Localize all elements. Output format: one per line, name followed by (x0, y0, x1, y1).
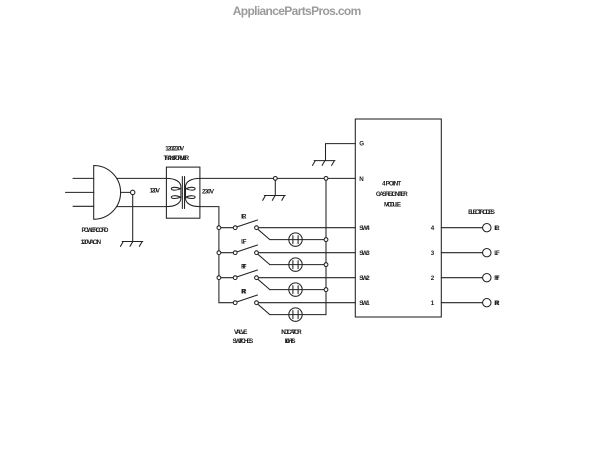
svg-text:GAS RE-IGNITER: GAS RE-IGNITER (376, 191, 408, 198)
ground symbol at N rail (263, 196, 286, 201)
svg-text:1: 1 (431, 300, 435, 307)
svg-text:INDICATOR: INDICATOR (281, 329, 302, 336)
wire lamp tap row 4 diagonal (258, 304, 270, 314)
junction ring bus row 2 (217, 251, 221, 255)
wire electrode lead 2 (441, 277, 482, 279)
svg-text:MODULE: MODULE (384, 201, 401, 208)
svg-text:RR: RR (494, 300, 500, 307)
svg-text:AppliancePartsPros.com: AppliancePartsPros.com (233, 4, 362, 18)
svg-text:2: 2 (431, 275, 435, 282)
plug ground terminal ring (131, 190, 135, 194)
transformer core lines (182, 177, 184, 209)
valve switch RR right terminal (255, 301, 259, 305)
svg-text:VALVE: VALVE (234, 329, 248, 336)
wire N ground drop (274, 180, 276, 195)
svg-text:LIGHTS: LIGHTS (285, 338, 296, 345)
svg-text:LR: LR (494, 225, 500, 232)
wire switch bus stub row 2 (219, 252, 233, 254)
wire lamp row 2 to neutral bus (270, 264, 326, 266)
valve switch LR left terminal (233, 226, 237, 230)
svg-text:SW1: SW1 (359, 300, 370, 307)
wire SW4 row to module (258, 227, 355, 229)
junction ring node N-bus top (324, 177, 328, 181)
valve switch RR arm (237, 295, 257, 302)
valve switch LF right terminal (255, 251, 259, 255)
svg-text:120/230V: 120/230V (165, 145, 185, 152)
wire plug ground stub (121, 191, 131, 193)
indicator light RF (289, 283, 302, 296)
indicator light RR (289, 308, 302, 321)
electrode terminal LR (483, 224, 491, 232)
wire lamp tap row 3 diagonal (258, 279, 270, 289)
svg-text:SW3: SW3 (359, 250, 370, 257)
valve switch LR arm (237, 220, 257, 227)
svg-text:LF: LF (494, 250, 500, 257)
electrode terminal LF (483, 249, 491, 257)
electrode terminal RR (483, 299, 491, 307)
junction ring node N-ground tap (273, 177, 277, 181)
transformer secondary loop 2 (186, 196, 195, 199)
indicator light LF (289, 258, 302, 271)
svg-text:SWITCHES: SWITCHES (233, 338, 254, 345)
transformer primary loop 1 (171, 187, 180, 190)
wire lamp tap row 1 diagonal (258, 229, 270, 239)
svg-text:RF: RF (241, 263, 247, 270)
wire switch bus stub row 1 (219, 227, 233, 229)
svg-text:N: N (359, 176, 364, 183)
svg-text:POWER CORD: POWER CORD (82, 227, 110, 234)
indicator light LR (289, 233, 302, 246)
svg-text:4: 4 (431, 225, 435, 232)
wire module G lead (326, 144, 356, 161)
valve switch RF arm (237, 270, 257, 277)
wire electrode lead 4 (441, 227, 482, 229)
wire plug bottom to transformer (117, 206, 167, 208)
wire SW2 row to module (258, 277, 355, 279)
svg-text:3: 3 (431, 250, 435, 257)
ground symbol at module G (313, 161, 336, 166)
wire plug top to transformer (120V hot) (117, 177, 167, 179)
svg-text:230V: 230V (202, 188, 215, 195)
svg-text:TRANSFORMER: TRANSFORMER (164, 155, 190, 162)
junction ring bus row 3 (217, 276, 221, 280)
wire lamp row 3 to neutral bus (270, 289, 326, 291)
junction ring bus row 1 (217, 226, 221, 230)
svg-text:LF: LF (241, 238, 247, 245)
svg-text:G: G (359, 141, 364, 148)
junction ring neutral bus row 2 (324, 263, 328, 267)
valve switch RR left terminal (233, 301, 237, 305)
plug prong bottom (73, 205, 94, 207)
svg-text:120 VAC IN: 120 VAC IN (81, 239, 102, 246)
valve switch LF arm (237, 245, 257, 252)
wire lamp row 1 to neutral bus (270, 239, 326, 241)
svg-text:ELECTRODES: ELECTRODES (468, 209, 495, 216)
transformer secondary loop 1 (186, 187, 195, 190)
svg-text:120V: 120V (150, 187, 161, 194)
plug prong middle (66, 191, 94, 193)
wire lamp row 4 to neutral bus (270, 314, 326, 316)
ground symbol at power cord (121, 242, 143, 247)
wire SW3 row to module (258, 252, 355, 254)
svg-text:SW2: SW2 (359, 275, 370, 282)
wire secondary to switch bus (200, 207, 233, 303)
svg-text:LR: LR (241, 213, 247, 220)
wire neutral bus vertical (325, 180, 327, 314)
valve switch RF left terminal (233, 276, 237, 280)
svg-text:RF: RF (494, 275, 500, 282)
wire plug ground drop (132, 195, 134, 242)
wire N rail transformer to module (200, 177, 355, 179)
plug prong top (73, 177, 94, 179)
wire electrode lead 3 (441, 252, 482, 254)
wire lamp tap row 2 diagonal (258, 254, 270, 264)
transformer T1 box (166, 167, 200, 218)
wire electrode lead 1 (441, 302, 482, 304)
junction ring neutral bus row 3 (324, 288, 328, 292)
transformer secondary winding (186, 178, 200, 206)
wire switch bus stub row 3 (219, 277, 233, 279)
transformer primary winding (166, 178, 181, 206)
wire SW1 row to module (258, 302, 355, 304)
valve switch LR right terminal (255, 226, 259, 230)
transformer primary loop 2 (171, 196, 180, 199)
valve switch LF left terminal (233, 251, 237, 255)
svg-text:RR: RR (241, 288, 247, 295)
junction ring neutral bus row 1 (324, 238, 328, 242)
electrode terminal RF (483, 274, 491, 282)
valve switch RF right terminal (255, 276, 259, 280)
re-igniter module U1 box (355, 119, 441, 317)
svg-text:SW4: SW4 (359, 225, 370, 232)
power cord plug P1 body (94, 166, 121, 220)
svg-text:4 POINT: 4 POINT (382, 180, 401, 187)
